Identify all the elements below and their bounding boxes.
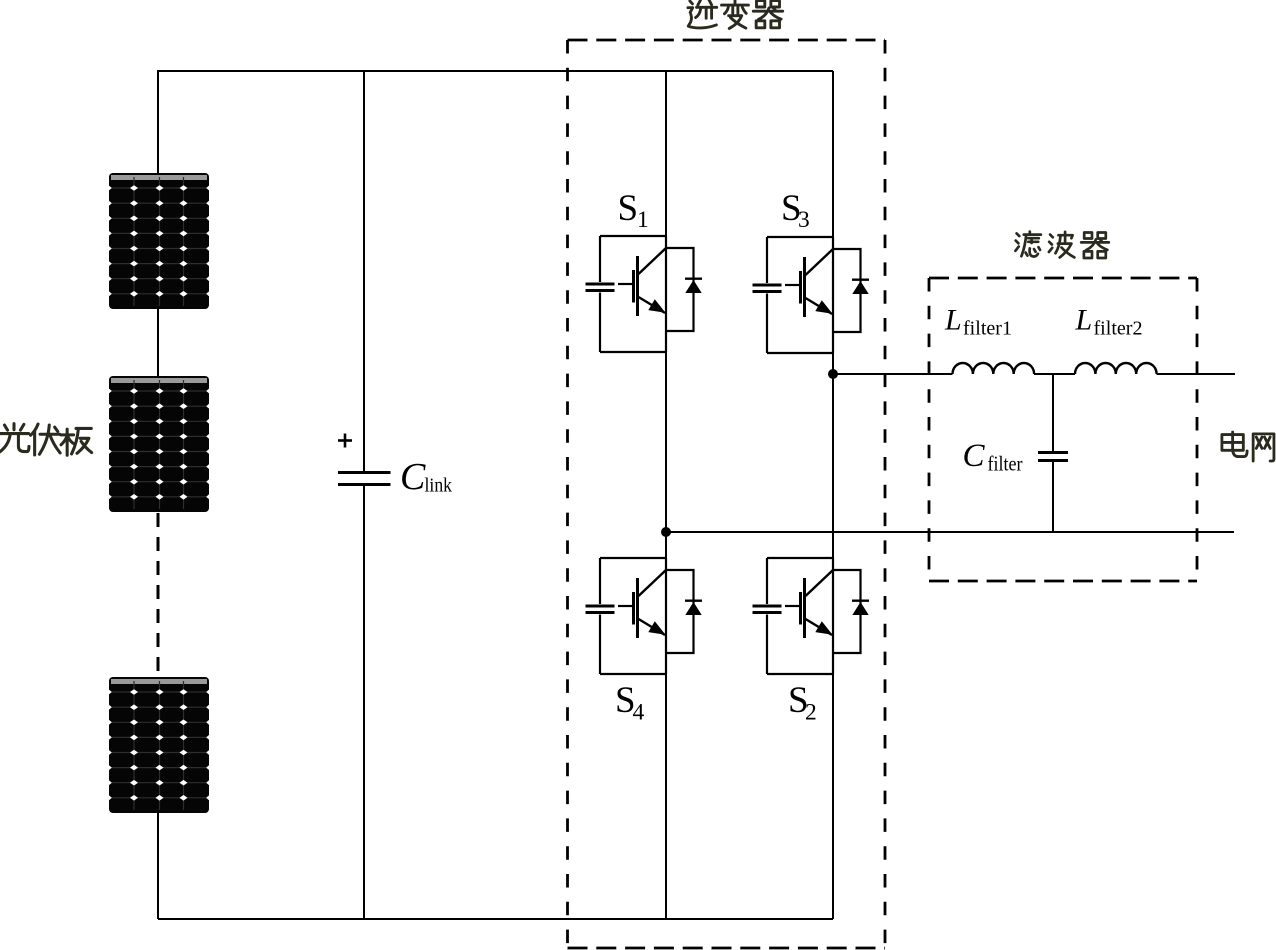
svg-text:L: L (944, 304, 962, 337)
wire PV string top (157, 70, 159, 174)
filter dashed box top edge (929, 277, 1197, 280)
label filter (滤波器) (1015, 232, 1108, 258)
transistor S1 (IGBT with diode) (586, 236, 703, 352)
filter dashed box right edge (1196, 278, 1199, 581)
inverter dashed box top edge (568, 39, 886, 42)
wire inverter left leg middle (665, 352, 667, 558)
wire inverter left leg upper (665, 71, 667, 236)
label PV panels (光伏板) (0, 424, 92, 456)
wire AC phase A after L2 to grid (1157, 373, 1236, 375)
transistor S3 (IGBT with diode) (753, 237, 870, 353)
wire C_filter branch lower (1052, 461, 1054, 532)
wire AC phase B from node B to grid (666, 531, 1234, 533)
wire C_link vertical top (363, 71, 365, 471)
label grid (电网) (1222, 432, 1274, 461)
wire C_link vertical bottom (363, 485, 365, 919)
PV panel 3 (109, 677, 209, 813)
plus sign polarity mark (338, 434, 352, 448)
wire dashed between panel2 and panel3 (157, 513, 160, 677)
svg-text:S: S (618, 188, 639, 229)
wire C_filter branch upper (1052, 374, 1054, 451)
wire inverter right leg upper (832, 71, 834, 237)
svg-text:filter1: filter1 (963, 318, 1012, 340)
filter dashed box left edge (928, 278, 931, 581)
wire top DC bus (158, 70, 833, 72)
node B junction dot (661, 527, 671, 537)
filter dashed box bottom edge (929, 580, 1197, 583)
transistor S4 (IGBT with diode) (586, 558, 703, 674)
svg-text:C: C (400, 456, 426, 498)
svg-text:C: C (963, 438, 986, 474)
inductor L_filter2 (1075, 363, 1157, 374)
capacitor C_filter (1038, 453, 1068, 461)
wire between panel1 and panel2 (157, 308, 159, 377)
inductor L_filter1 (953, 363, 1035, 374)
wire AC phase A from node A to filter (833, 373, 953, 375)
svg-text:2: 2 (805, 700, 817, 726)
inverter dashed box right edge (884, 40, 887, 948)
svg-text:link: link (425, 475, 453, 497)
wire below panel3 (157, 813, 159, 919)
PV panel 1 (109, 173, 209, 309)
svg-text:filter2: filter2 (1094, 318, 1143, 340)
wire bottom DC bus (158, 918, 833, 920)
inverter dashed box left edge (566, 40, 569, 948)
label inverter (逆变器) (688, 0, 783, 28)
wire between L1 and L2 (1034, 373, 1075, 375)
inverter dashed box bottom edge (568, 947, 886, 950)
wire inverter right leg lower (832, 674, 834, 919)
wire inverter left leg lower (665, 674, 667, 919)
svg-text:filter: filter (988, 452, 1023, 476)
node A junction dot (828, 369, 838, 379)
svg-text:1: 1 (637, 207, 649, 233)
wire inverter right leg middle (832, 353, 834, 558)
PV panel 2 (109, 376, 209, 512)
svg-text:3: 3 (798, 207, 810, 233)
svg-text:L: L (1075, 304, 1093, 337)
capacitor C_link (338, 473, 391, 485)
svg-text:4: 4 (633, 700, 645, 726)
transistor S2 (IGBT with diode) (753, 558, 870, 674)
